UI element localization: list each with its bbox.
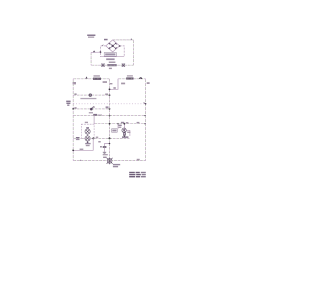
- wire: bridge top to right vertical: [113, 39, 134, 41]
- right cluster vertical: [123, 124, 125, 136]
- motor M3 (circle with X): [122, 128, 126, 132]
- wire: inner loop bottom: [100, 56, 124, 58]
- label B row1: [74, 93, 76, 95]
- node dot row1/vertical: [109, 94, 111, 96]
- wire: inner loop right (bridge right corner down): [120, 46, 125, 57]
- small circle below M3: [123, 133, 125, 135]
- label right of M3: [127, 132, 130, 133]
- row2 wire y108.9: [73, 108, 109, 110]
- wire: outer loop left vertical: [90, 52, 92, 65]
- text right on row3: [98, 115, 102, 116]
- motor M2 on row5 (circle with X): [85, 136, 90, 141]
- label PL-2: [121, 83, 125, 85]
- chroma-green dash phases on long wires: [73, 40, 145, 161]
- label line 2 under relay box: [109, 62, 116, 64]
- junction tick on top wire: [130, 39, 132, 40]
- node dot row2/left edge: [72, 108, 74, 110]
- label below center vertical top: [110, 83, 113, 84]
- motor M1 in box (circle with X): [85, 129, 90, 134]
- relay box K1 under bridge: [104, 53, 116, 57]
- switch SW2 on row2: [90, 108, 93, 111]
- label L1 below top-left corner: [73, 82, 76, 84]
- row3 wire y115.6 full width: [73, 115, 145, 117]
- drive motor M4: [107, 158, 113, 165]
- label 21 inside box K2: [86, 127, 89, 129]
- label under relay box: [106, 58, 114, 60]
- right edge: [145, 79, 147, 161]
- label top-left of bridge: [87, 35, 95, 37]
- arrowhead bottom of cluster: [124, 135, 126, 136]
- top edge right segment: [118, 78, 146, 80]
- legend text block: [129, 172, 146, 178]
- label above fuse box F2: [127, 75, 133, 76]
- label below capacitor: [103, 154, 108, 155]
- junction arrow at right edge row103.8: [144, 103, 146, 104]
- fuse box F2 on top edge: [126, 77, 133, 79]
- switch SW1 on row1: [89, 94, 92, 97]
- fuse box F1 on top edge: [93, 78, 101, 80]
- wire from dot down and left to edge: [73, 138, 93, 150]
- node dot hook/vertical: [109, 88, 111, 90]
- wire: outer loop bottom: [91, 64, 133, 66]
- lamp X2 on bottom wire: [122, 64, 125, 67]
- node dot row5/vertical: [109, 137, 111, 139]
- label TL-2 below edge: [103, 81, 107, 83]
- label TDL at row5 end: [122, 136, 128, 138]
- tick on top edge at x86.5: [86, 77, 88, 79]
- node dot right of M2: [92, 137, 94, 139]
- node dot row2/vertical: [109, 108, 111, 110]
- label BK above bottom edge right: [137, 159, 140, 161]
- node tick row3/right edge: [144, 115, 145, 117]
- bridge rectifier B1 (diamond): [106, 40, 120, 52]
- wire: right vertical of outer loop: [132, 40, 134, 65]
- label 18 near row1 end: [105, 94, 108, 95]
- branch from row3 down to box: [93, 116, 95, 125]
- tick near inner loop corner: [102, 45, 103, 46]
- label DRIVE MOTOR right of M4: [113, 164, 120, 165]
- supply label TM 240V outside left edge: [66, 101, 70, 106]
- node dot at bridge right corner: [119, 45, 121, 47]
- row mid y103.8 full width: [73, 103, 145, 105]
- arrow + labels below M2: [87, 141, 89, 143]
- label below bottom wire: [109, 68, 112, 69]
- label above wire y150.3: [80, 149, 84, 150]
- boxed label on bottom wire: [107, 64, 116, 66]
- text below row2: [89, 112, 93, 113]
- node dot cluster top: [124, 123, 126, 125]
- center vertical bus: [109, 79, 111, 158]
- label above fuse box F1: [94, 75, 100, 76]
- junction blob/label on row3: [93, 114, 97, 116]
- row5 wire y138.4: [73, 137, 129, 139]
- label H row2: [74, 107, 76, 109]
- label W on hook wire: [113, 87, 115, 89]
- label above row5 left portion: [96, 137, 98, 138]
- text below row1: [80, 98, 96, 99]
- wire: left stub y52.3 with switch caret: [91, 51, 100, 53]
- hook from top edge right segment: [110, 79, 119, 90]
- top edge left segment: [73, 78, 109, 80]
- node label 21B: [104, 39, 108, 41]
- label right of SW2: [93, 106, 95, 107]
- capacitor C1 branch: [105, 144, 110, 147]
- row1 wire y95.1: [73, 94, 109, 96]
- connector bump on top edge: [139, 77, 142, 80]
- node dot row4/vertical: [109, 123, 111, 125]
- switch caret S-top: [93, 51, 95, 52]
- tick on bottom edge left: [79, 159, 82, 162]
- bracket from M3 right: [126, 130, 130, 136]
- label left of motor: [103, 157, 107, 158]
- left edge: [72, 79, 74, 161]
- bottom edge: [73, 160, 145, 162]
- label C near row2 end: [106, 106, 109, 108]
- small box label between verticals: [112, 129, 118, 132]
- row4 wire y123.7: [94, 123, 146, 125]
- label above left box on row4 level: [85, 122, 88, 123]
- node tick row4/right edge: [144, 123, 145, 125]
- wire: inner loop left (bridge left corner down): [100, 46, 105, 57]
- labels left of right cluster: [118, 125, 121, 126]
- labels above row4 near cluster: [121, 122, 124, 124]
- node dot row3/vertical: [109, 115, 111, 117]
- node dot on inner left vertical: [100, 51, 102, 53]
- node dot row4/x118 + stub: [117, 123, 119, 125]
- label BK right of top-right corner: [147, 82, 150, 84]
- stub between M1 and M2: [87, 134, 89, 136]
- label RD above row4 right: [137, 122, 140, 123]
- node dot left edge y150.3: [72, 149, 74, 151]
- label left of capacitor: [100, 146, 102, 148]
- label right of wire below dot: [98, 141, 100, 143]
- label TM inline on row5: [76, 137, 80, 138]
- lamp X1 on bottom wire: [101, 64, 104, 67]
- relay box K2 (left cluster): [81, 124, 94, 138]
